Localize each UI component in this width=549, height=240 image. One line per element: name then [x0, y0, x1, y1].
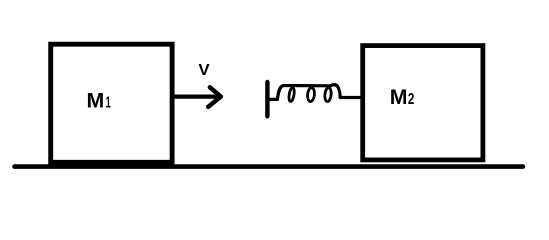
spring coil	[270, 85, 361, 102]
svg-text:1: 1	[106, 94, 111, 111]
mass M2 box	[363, 46, 483, 160]
mass M1 box	[51, 44, 172, 162]
spring plate	[265, 82, 269, 116]
velocity arrow	[175, 87, 221, 107]
svg-text:V: V	[198, 62, 210, 79]
svg-text:2: 2	[408, 91, 415, 108]
svg-text:M: M	[87, 88, 105, 112]
svg-text:M: M	[390, 85, 408, 109]
ground line	[15, 164, 524, 169]
